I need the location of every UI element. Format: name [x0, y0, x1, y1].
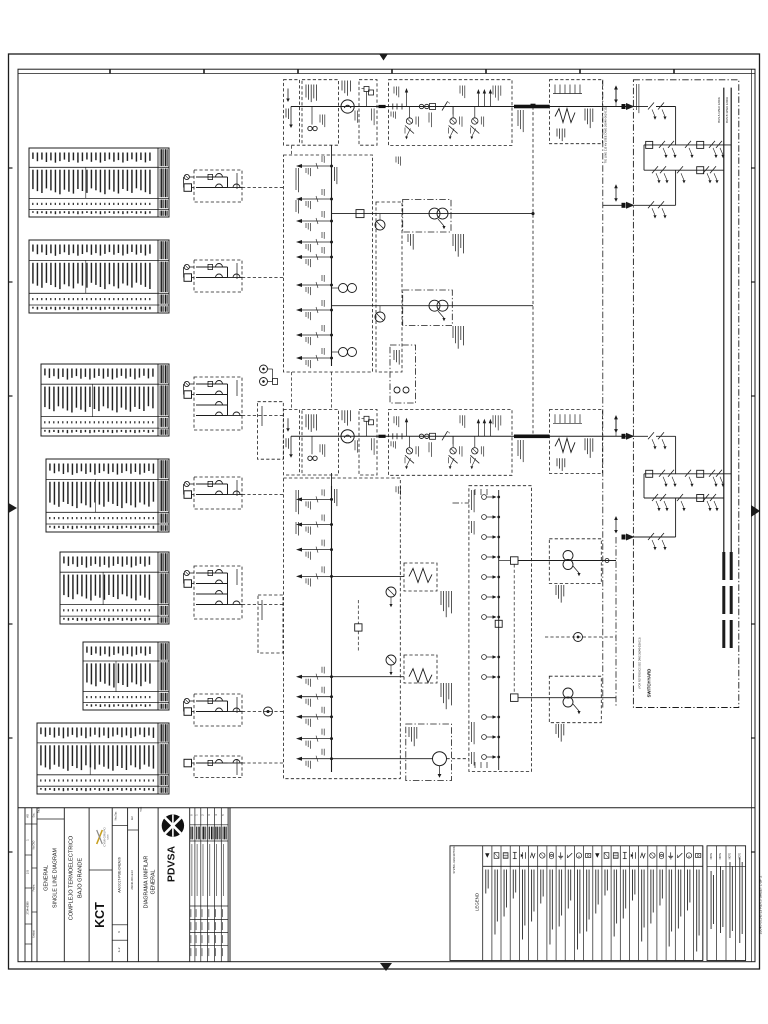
svg-text:Nro.Doc: Nro.Doc	[115, 811, 118, 821]
svg-text:BUS B 115kV 1200A: BUS B 115kV 1200A	[725, 97, 729, 123]
svg-text:SWITCHYARD: SWITCHYARD	[647, 669, 652, 698]
svg-text:1+2: 1+2	[117, 947, 121, 952]
svg-text:Fecha: Fecha	[33, 884, 36, 891]
svg-text:No CAD: No CAD	[33, 840, 36, 849]
svg-text:Titulo: Titulo	[140, 806, 143, 812]
svg-text:BAJO GRANDE: BAJO GRANDE	[78, 858, 84, 898]
svg-text:COMPLEJO TERMOELECTRICO: COMPLEJO TERMOELECTRICO	[69, 835, 75, 920]
svg-text:26040-001-E-13 REV.0 SHEET 1: 26040-001-E-13 REV.0 SHEET 1 OF 2	[759, 876, 763, 935]
svg-text:2:5: 2:5	[26, 870, 30, 875]
svg-text:2734+6380: 2734+6380	[26, 901, 30, 915]
svg-text:NOTE: NOTE	[711, 852, 713, 859]
svg-text:PDVSA: PDVSA	[166, 846, 178, 883]
svg-text:M: M	[577, 856, 581, 858]
svg-text:(FOR REFERENCE SEE DWG 26040-0: (FOR REFERENCE SEE DWG 26040-003-E13)	[639, 637, 642, 688]
svg-text:SYMBOL DESCRIPTION: SYMBOL DESCRIPTION	[453, 846, 456, 873]
svg-text:Esc.: Esc.	[33, 812, 36, 817]
svg-text:SADE: SADE	[107, 833, 110, 839]
svg-text:DIAGRAMA UNIFILAR: DIAGRAMA UNIFILAR	[144, 856, 150, 909]
svg-text:SINGLE LINE DIAGRAM: SINGLE LINE DIAGRAM	[53, 848, 59, 908]
svg-text:CYMI GRUPO: CYMI GRUPO	[103, 827, 107, 847]
svg-text:26040-001-E13: 26040-001-E13	[130, 870, 134, 890]
svg-text:BUS A 115kV 1200A: BUS A 115kV 1200A	[717, 97, 721, 123]
svg-text:A0: A0	[26, 814, 30, 818]
svg-text:LEGEND: LEGEND	[475, 893, 480, 911]
svg-text:Unidad: Unidad	[33, 930, 36, 938]
svg-text:Titulo: Titulo	[38, 807, 41, 813]
svg-text:GENERAL: GENERAL	[151, 869, 157, 894]
svg-text:GENERAL: GENERAL	[44, 865, 50, 891]
svg-text:M: M	[687, 856, 691, 858]
svg-text:NOTE: NOTE	[730, 852, 732, 859]
svg-text:NOTE: NOTE	[720, 852, 722, 859]
svg-text:KCT: KCT	[93, 902, 107, 928]
svg-text:TIE LINE 115 kV (SEE DWG 26040: TIE LINE 115 kV (SEE DWG 26040-002-E13)	[604, 107, 608, 164]
svg-text:AA00017-PUE-D42A06: AA00017-PUE-D42A06	[118, 857, 122, 893]
svg-text:Ref.: Ref.	[131, 815, 134, 820]
